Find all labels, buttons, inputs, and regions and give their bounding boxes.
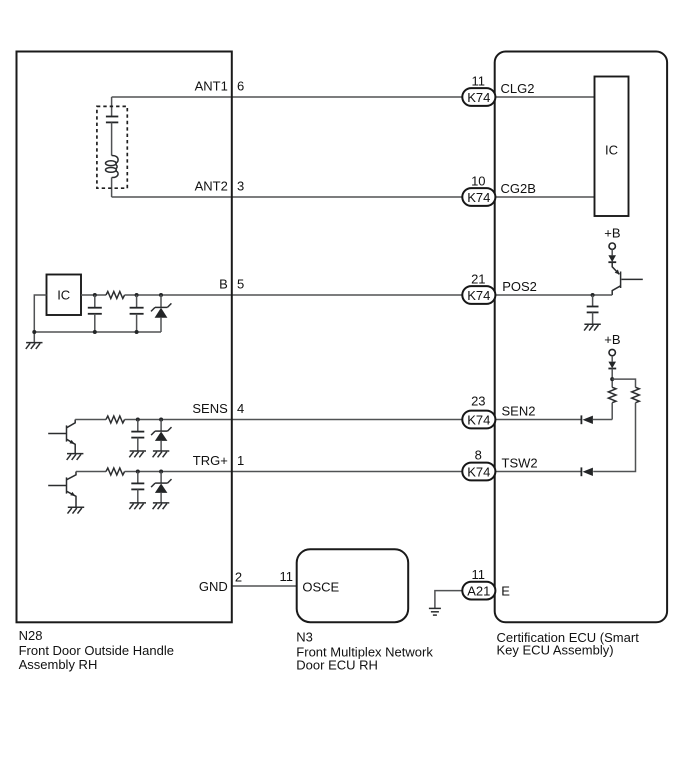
ground for E (IEC) xyxy=(429,608,441,615)
node TRG junction 1 xyxy=(136,470,140,474)
wire POS2 to Q3 collector xyxy=(495,294,612,296)
node +B terminal circle xyxy=(609,243,615,249)
svg-text:8: 8 xyxy=(475,448,482,463)
IC U2 (right IC block) xyxy=(595,77,629,217)
svg-text:POS2: POS2 xyxy=(502,279,537,294)
svg-text:SENS: SENS xyxy=(192,401,228,416)
resistor R5 (pull-up TSW2) xyxy=(632,387,640,402)
wire TRG+ to box edge and TSW2 oval xyxy=(125,471,463,473)
wire CLG2 to IC U2 xyxy=(495,96,595,98)
ground for C5 xyxy=(129,503,146,509)
wire Q2 collector to R3 xyxy=(76,471,106,473)
zener diode D3 xyxy=(160,472,162,484)
node rail junction 3 xyxy=(135,330,139,334)
connector oval K74 pin 11 (CLG2) xyxy=(462,88,495,106)
svg-text:N28: N28 xyxy=(19,628,43,643)
svg-text:11: 11 xyxy=(280,569,294,584)
node B2 junction xyxy=(135,293,139,297)
svg-text:ANT1: ANT1 xyxy=(195,79,228,94)
diode D5 xyxy=(608,362,616,369)
node SENS junction 2 xyxy=(159,418,163,422)
wire SENS to box edge and SEN2 oval xyxy=(125,419,463,421)
wire Q1 collector to R2 xyxy=(75,419,106,421)
svg-text:+B: +B xyxy=(604,332,620,347)
svg-text:2: 2 xyxy=(235,570,242,585)
node +B terminal circle 2 xyxy=(609,349,615,355)
svg-text:3: 3 xyxy=(237,179,244,194)
node POS2 junction xyxy=(591,293,595,297)
wire R5 down to TSW2 line xyxy=(593,403,635,472)
wire ground rail of U1 stage xyxy=(34,331,161,333)
svg-text:K74: K74 xyxy=(467,412,490,427)
svg-text:10: 10 xyxy=(471,174,485,189)
svg-text:Door ECU RH: Door ECU RH xyxy=(296,658,378,673)
capacitor C3 xyxy=(136,295,138,308)
capacitor C1 (antenna tuning) xyxy=(106,117,118,123)
resistor R2 (SENS line) xyxy=(106,416,125,423)
wire antenna vertical upper xyxy=(111,97,113,116)
resistor R3 (TRG+ line) xyxy=(106,468,125,475)
svg-text:Key ECU Assembly): Key ECU Assembly) xyxy=(497,643,614,658)
svg-text:SEN2: SEN2 xyxy=(502,403,536,418)
svg-text:TRG+: TRG+ xyxy=(193,453,228,468)
wire GND pin2 to OSCE pin11 xyxy=(232,585,297,587)
svg-text:6: 6 xyxy=(237,79,244,94)
node SENS junction 1 xyxy=(136,418,140,422)
transistor Q2 (TRG+ driver) xyxy=(48,472,76,508)
capacitor C6 xyxy=(592,295,594,306)
ground for C6 xyxy=(584,324,601,330)
svg-text:CLG2: CLG2 xyxy=(501,81,535,96)
svg-text:1: 1 xyxy=(237,453,244,468)
zener diode D1 xyxy=(160,295,162,307)
svg-text:+B: +B xyxy=(604,225,620,240)
node rail junction 2 xyxy=(93,330,97,334)
svg-text:K74: K74 xyxy=(467,90,490,105)
svg-text:A21: A21 xyxy=(467,584,490,599)
ground for Q2 emitter xyxy=(68,507,85,513)
svg-text:B: B xyxy=(219,277,228,292)
wire U1 right lead to node B1 xyxy=(81,294,106,296)
ground for U1 xyxy=(26,343,43,349)
ground for D2 xyxy=(153,451,170,457)
wire +B to D4 xyxy=(611,249,613,255)
svg-text:E: E xyxy=(501,583,510,598)
svg-text:11: 11 xyxy=(472,74,486,89)
ground for Q1 emitter xyxy=(67,454,84,460)
transistor Q3 (PNP, POS2) xyxy=(612,262,643,295)
svg-text:TSW2: TSW2 xyxy=(502,455,538,470)
svg-text:K74: K74 xyxy=(467,190,490,205)
wire ANT2 to CG2B (node ANT2, row y=197) xyxy=(112,196,463,198)
svg-text:IC: IC xyxy=(605,143,618,158)
wire antenna vertical lower xyxy=(111,178,113,198)
svg-text:N3: N3 xyxy=(296,629,313,644)
inductor L1 (antenna coil) xyxy=(106,155,119,177)
wire SEN2 from oval to D6 xyxy=(495,419,581,421)
wire ANT1 to CLG2 (node ANT1, row y=97) xyxy=(112,96,463,98)
svg-text:Front Door Outside Handle: Front Door Outside Handle xyxy=(19,643,174,658)
node B3 junction xyxy=(159,293,163,297)
svg-text:Assembly RH: Assembly RH xyxy=(19,657,98,672)
wire E pin to ground xyxy=(435,591,463,609)
ground for C4 xyxy=(129,451,146,457)
svg-text:K74: K74 xyxy=(467,288,490,303)
wire node B2 to box edge and POS2 xyxy=(125,294,463,296)
wire CG2B to IC U2 xyxy=(495,196,595,198)
wire D6 to R4 corner xyxy=(593,419,612,421)
ground for D3 xyxy=(153,503,170,509)
capacitor C5 xyxy=(137,472,139,484)
wire +B to D5 xyxy=(611,356,613,362)
component box N28 Front Door Outside Handle Assembly RH xyxy=(17,52,232,623)
capacitor C2 xyxy=(94,295,96,308)
connector oval K74 pin 10 (CG2B) xyxy=(462,188,495,206)
node rail junction 1 xyxy=(32,330,36,334)
svg-text:K74: K74 xyxy=(467,464,490,479)
svg-text:CG2B: CG2B xyxy=(501,181,536,196)
svg-text:23: 23 xyxy=(471,394,485,409)
diode D4 xyxy=(608,255,616,262)
diode D6 (SEN2) xyxy=(580,415,582,424)
capacitor C4 xyxy=(137,420,139,432)
svg-text:GND: GND xyxy=(199,579,228,594)
svg-text:5: 5 xyxy=(237,277,244,292)
transistor Q1 (SENS driver) xyxy=(48,420,75,454)
connector oval K74 pin 21 (POS2) xyxy=(462,286,495,304)
antenna dashed enclosure xyxy=(97,106,127,188)
op-amp/IC U1 (left IC block) xyxy=(47,275,82,316)
connector oval A21 pin 11 (E) xyxy=(462,582,495,600)
svg-text:OSCE: OSCE xyxy=(302,579,339,594)
resistor R1 (B line) xyxy=(106,292,125,299)
svg-text:4: 4 xyxy=(237,401,244,416)
resistor R4 (pull-up SEN2) xyxy=(608,387,616,402)
svg-text:IC: IC xyxy=(57,287,70,302)
connector oval K74 pin 8 (TSW2) xyxy=(462,463,495,481)
wire R4 to SEN2 line xyxy=(611,403,613,420)
wire U1 left lead xyxy=(34,295,46,343)
svg-text:11: 11 xyxy=(472,567,486,582)
node TRG junction 2 xyxy=(159,470,163,474)
component box N3 Front Multiplex Network Door ECU RH xyxy=(297,549,409,622)
wire D5 to node P xyxy=(611,369,613,388)
svg-text:21: 21 xyxy=(471,272,485,287)
wire antenna middle xyxy=(111,122,113,155)
node B1 junction xyxy=(93,293,97,297)
svg-text:ANT2: ANT2 xyxy=(195,179,228,194)
wire node P to R5 top xyxy=(612,379,635,387)
node P junction xyxy=(610,377,614,381)
connector oval K74 pin 23 (SEN2) xyxy=(462,411,495,429)
diode D7 (TSW2) xyxy=(580,467,582,476)
zener diode D2 xyxy=(160,420,162,432)
component box ECU (Certification ECU) xyxy=(495,52,667,623)
wire TSW2 from oval to D7 xyxy=(495,471,581,473)
